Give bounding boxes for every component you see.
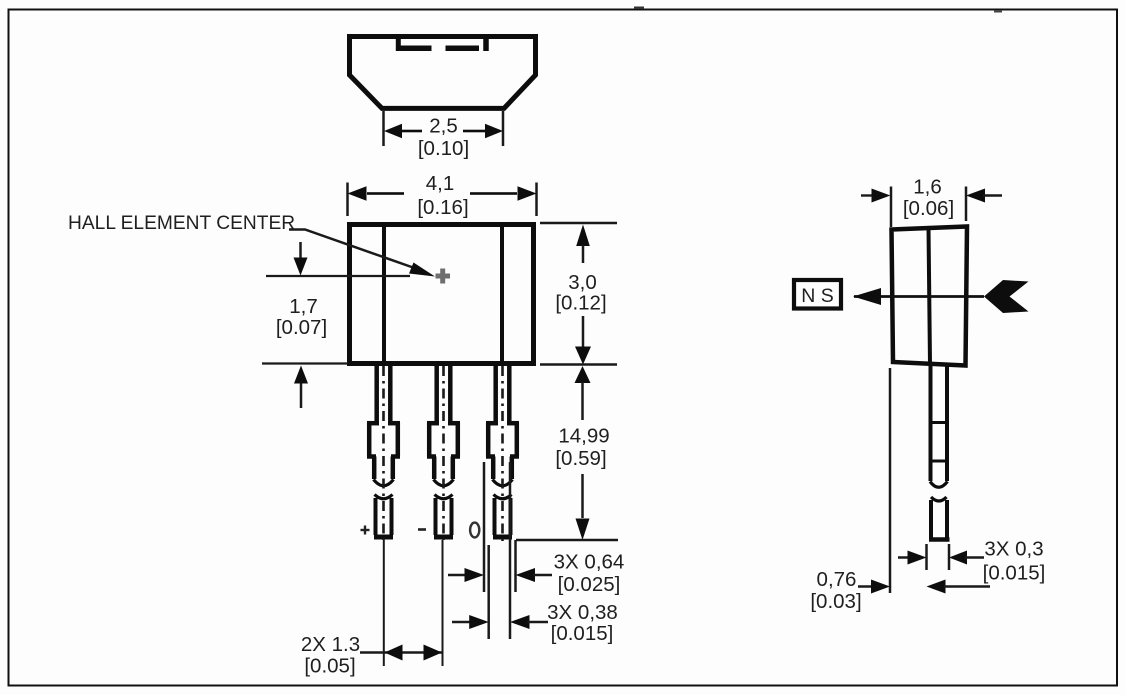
svg-text:4,1: 4,1 [426, 172, 455, 195]
lead 1 (+) front [367, 366, 400, 537]
extension line 0,64 right [514, 540, 517, 592]
front view mold line right [500, 227, 504, 361]
svg-text:[0.025]: [0.025] [558, 573, 621, 596]
svg-text:N S: N S [801, 285, 834, 307]
dimension 2X 1.3 line and arrows [360, 645, 442, 661]
svg-text:[0.12]: [0.12] [555, 292, 606, 315]
magnetic axis line [854, 295, 984, 298]
svg-text:[0.10]: [0.10] [418, 137, 469, 160]
hall element center cross [436, 269, 451, 284]
svg-text:2,5: 2,5 [429, 115, 458, 138]
side body extension line [889, 368, 892, 593]
svg-text:[0.59]: [0.59] [555, 447, 606, 470]
svg-text:1,6: 1,6 [913, 176, 942, 199]
dimension 3X 0,3 arrows [898, 551, 984, 565]
svg-text:HALL ELEMENT CENTER: HALL ELEMENT CENTER [68, 213, 295, 234]
dimension 1,7 upper arrow [294, 242, 308, 276]
lead 3 (0) front [486, 366, 519, 537]
magnetic axis right double arrowhead [984, 280, 1029, 313]
top view package outline [350, 37, 536, 109]
N S box [794, 280, 841, 309]
lead 2 centerline [443, 366, 444, 666]
dimension 1,7 lower arrow [294, 366, 308, 409]
svg-text:[0.07]: [0.07] [276, 316, 327, 339]
dimension 4,1 extension lines [348, 183, 537, 217]
dimension 2,5 arrows and line [384, 124, 503, 138]
dimension 14,99 arrows [575, 366, 591, 540]
front view package body [350, 225, 534, 364]
front view mold line left [382, 227, 386, 361]
side view body [892, 227, 968, 366]
dimension 1,6 arrows [861, 189, 1002, 203]
body bottom extension line left [262, 362, 348, 364]
extension line 0,38 left [487, 545, 490, 639]
svg-text:3X 0,64: 3X 0,64 [554, 551, 625, 574]
dimension 3,0 arrows [575, 225, 591, 365]
dimension 3X 0,64 arrows [448, 568, 552, 582]
svg-text:[0.06]: [0.06] [903, 197, 954, 220]
extension line 0,38 right [509, 462, 512, 639]
magnetic axis left arrowhead [853, 288, 881, 305]
dimension 4,1 line and arrows [348, 186, 537, 200]
lead 1 centerline [382, 366, 385, 666]
svg-text:2X 1.3: 2X 1.3 [301, 633, 360, 656]
leader line to hall center [289, 230, 435, 277]
hall center reference line [266, 275, 410, 277]
dimension 1,6 extension lines [891, 187, 966, 228]
minus label [418, 528, 426, 531]
svg-text:3X 0,3: 3X 0,3 [984, 538, 1043, 561]
lead edge extension lines below side lead [927, 544, 950, 570]
lead bottom reference line [516, 539, 618, 542]
svg-text:14,99: 14,99 [558, 425, 609, 448]
dimension 3X 0,38 arrows [452, 615, 548, 629]
plus label [361, 526, 370, 535]
svg-text:[0.05]: [0.05] [304, 655, 355, 678]
zero label [470, 523, 479, 538]
svg-text:[0.015]: [0.015] [983, 562, 1046, 585]
svg-text:0,76: 0,76 [817, 568, 857, 591]
side view mold line [929, 228, 931, 364]
lead 2 (-) front [427, 366, 460, 537]
dimension 2,5 extension lines [384, 111, 504, 146]
lead 3 centerline [501, 366, 504, 545]
svg-text:3X 0,38: 3X 0,38 [547, 601, 618, 624]
extension line 0,64 left [483, 462, 486, 592]
svg-text:[0.03]: [0.03] [810, 590, 861, 613]
dimension 0,76 arrows [858, 580, 990, 594]
top view notch hidden lines [396, 39, 486, 52]
svg-text:[0.16]: [0.16] [417, 196, 468, 219]
side view lead [929, 366, 950, 540]
dimension 3,0 extension lines [540, 223, 617, 365]
svg-text:[0.015]: [0.015] [551, 622, 614, 645]
svg-text:1,7: 1,7 [289, 295, 318, 318]
